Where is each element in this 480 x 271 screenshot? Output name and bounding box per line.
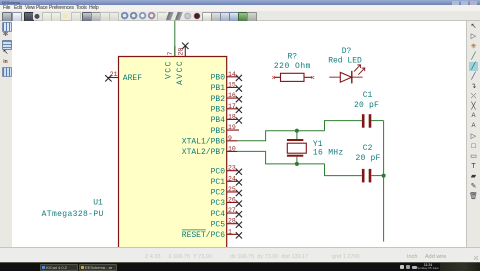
svg-text:PB5: PB5 [211, 127, 226, 136]
svg-text:Red LED: Red LED [328, 56, 362, 65]
svg-text:PC5: PC5 [211, 220, 226, 229]
right-side pin numbers [228, 71, 236, 236]
svg-text:C1: C1 [363, 91, 373, 100]
junction at crystal top [295, 129, 299, 133]
svg-text:VCC: VCC [164, 60, 173, 79]
svg-text:9: 9 [228, 135, 232, 142]
right-side pin names [182, 74, 225, 241]
wire bottom rail to C2 [325, 164, 362, 176]
pin 21 AREF stub [108, 77, 119, 79]
svg-text:ATmega328-PU: ATmega328-PU [42, 210, 104, 219]
svg-text:20: 20 [177, 48, 184, 56]
wire C2 right to rail [371, 175, 383, 177]
wire VCC vertical [174, 21, 176, 57]
LED D? emission arrows [354, 65, 365, 75]
wire crystal vertical stubs [296, 131, 298, 164]
svg-text:25: 25 [228, 186, 236, 193]
wire top rail to C1 [325, 121, 362, 131]
svg-text:26: 26 [228, 197, 236, 204]
svg-text:C2: C2 [363, 144, 373, 153]
RESET overline [182, 229, 206, 231]
svg-text:14: 14 [228, 71, 236, 78]
svg-text:D?: D? [342, 47, 352, 56]
svg-text:U1: U1 [93, 198, 103, 207]
svg-text:7: 7 [167, 52, 174, 56]
wire XTAL2 to crystal bottom rail [237, 151, 324, 164]
wire right vertical rail [383, 121, 385, 242]
svg-text:PB1: PB1 [211, 84, 226, 93]
svg-text:AREF: AREF [123, 74, 142, 83]
svg-text:18: 18 [228, 113, 236, 120]
svg-text:10: 10 [228, 145, 236, 152]
svg-text:20 pF: 20 pF [355, 154, 380, 163]
svg-text:PB4: PB4 [211, 116, 226, 125]
svg-text:PB3: PB3 [211, 106, 226, 115]
svg-text:28: 28 [228, 218, 236, 225]
resistor R? dangling end marks [272, 76, 314, 79]
svg-text:15: 15 [228, 82, 236, 89]
junction at crystal bottom [295, 162, 299, 166]
svg-text:20 pF: 20 pF [354, 101, 379, 110]
LED D? cathode bar [351, 71, 353, 84]
wire XTAL1 to crystal top rail [237, 131, 324, 141]
svg-text:1: 1 [228, 228, 232, 235]
resistor R? leads [274, 76, 313, 78]
svg-text:PC4: PC4 [211, 210, 226, 219]
no-connect X at AREF [105, 75, 111, 81]
svg-text:PC2: PC2 [211, 189, 226, 198]
capacitor C2 [362, 169, 371, 183]
junction at C2 right [382, 174, 386, 178]
svg-text:16: 16 [228, 92, 236, 99]
svg-text:17: 17 [228, 103, 236, 110]
resistor R? body [281, 73, 305, 81]
svg-text:27: 27 [228, 207, 236, 214]
svg-text:PB0: PB0 [211, 74, 226, 83]
svg-text:PB2: PB2 [211, 95, 226, 104]
pin 20 AVCC stub [184, 46, 186, 57]
svg-text:XTAL1/PB6: XTAL1/PB6 [182, 138, 225, 147]
svg-text:R?: R? [287, 53, 297, 62]
crystal Y1 [287, 139, 306, 157]
LED D? triangle [340, 72, 351, 82]
no-connect X at AVCC [182, 43, 188, 49]
wire C1 right to rail [371, 120, 383, 122]
svg-text:16 MHz: 16 MHz [313, 148, 344, 157]
svg-text:PC1: PC1 [211, 178, 226, 187]
right-side pins group: stubs [227, 77, 239, 235]
svg-text:PC3: PC3 [211, 199, 226, 208]
svg-text:220 Ohm: 220 Ohm [274, 62, 311, 71]
svg-text:PC0: PC0 [211, 167, 226, 176]
svg-text:23: 23 [228, 165, 236, 172]
svg-text:RESET/PC6: RESET/PC6 [182, 231, 225, 240]
LED D? leads [329, 76, 362, 78]
svg-text:21: 21 [110, 71, 118, 78]
pin 7 VCC stub [174, 46, 176, 57]
svg-text:AVCC: AVCC [176, 60, 185, 85]
svg-text:19: 19 [228, 124, 236, 131]
svg-text:24: 24 [228, 175, 236, 182]
svg-text:XTAL2/PB7: XTAL2/PB7 [182, 148, 225, 157]
capacitor C1 [362, 114, 371, 128]
IC U1 body [119, 57, 227, 248]
no-connect X marks on right pins [236, 75, 242, 239]
